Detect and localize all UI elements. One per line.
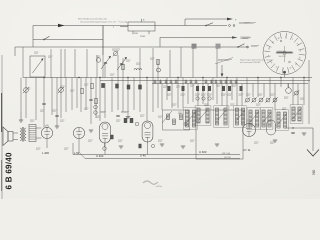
ground — [160, 143, 164, 145]
capacitor — [116, 114, 119, 116]
label value — [181, 93, 186, 95]
ground — [126, 116, 130, 118]
wire — [15, 46, 248, 48]
wire — [185, 18, 231, 20]
wire — [72, 143, 74, 155]
resistor box R-ballast — [128, 22, 155, 31]
wire — [257, 78, 259, 98]
trimmer — [295, 91, 299, 95]
wire — [90, 78, 92, 125]
terminal — [233, 25, 235, 27]
capacitor C4 — [89, 98, 92, 100]
wire — [33, 25, 103, 27]
wire — [148, 31, 150, 34]
svg-text:4a: 4a — [299, 50, 301, 52]
wire — [312, 128, 314, 151]
value label — [204, 103, 209, 105]
switch S3 — [238, 44, 245, 47]
tuning arrow — [186, 112, 196, 124]
variable cap C1 — [24, 88, 29, 93]
bus wire — [23, 77, 312, 79]
svg-text:Chassisverbindungsleitungen mi: Chassisverbindungsleitungen mit 1 mm — [80, 20, 117, 23]
wire — [133, 78, 135, 111]
ground — [302, 132, 306, 134]
value label — [36, 147, 41, 149]
wire — [60, 78, 62, 119]
circle osc tube pin — [157, 68, 161, 72]
capacitor blob — [127, 85, 130, 89]
value label — [176, 85, 181, 87]
IF coil L22 — [277, 112, 280, 128]
note pointer — [215, 58, 233, 65]
resistor R4 — [157, 59, 159, 65]
wire — [95, 78, 97, 119]
wire — [102, 26, 104, 78]
value label — [96, 115, 101, 117]
wire — [157, 60, 159, 78]
output transformer T1 — [20, 128, 22, 131]
switch contact — [180, 114, 183, 120]
junction — [146, 77, 147, 78]
wire — [177, 78, 179, 109]
label value — [227, 93, 232, 95]
wire — [71, 78, 73, 111]
capacitor — [211, 80, 213, 85]
power section box — [196, 110, 243, 159]
wire — [303, 78, 305, 106]
switch S1 — [44, 36, 50, 39]
tube top connection — [286, 88, 292, 94]
junction — [257, 77, 258, 78]
tuning arrow — [277, 114, 287, 126]
wire — [60, 49, 62, 78]
circle pin — [135, 122, 139, 126]
value label — [246, 93, 251, 95]
pin circle — [46, 125, 49, 128]
value label — [40, 109, 45, 111]
switch S2 — [206, 23, 213, 26]
capacitor blob — [116, 84, 119, 88]
label value — [239, 93, 244, 95]
trimmer C21 — [252, 98, 256, 102]
IF coil L13 — [206, 108, 209, 123]
wire — [78, 139, 80, 152]
value label — [230, 103, 235, 105]
arrow — [227, 18, 233, 21]
pencil smudge — [143, 181, 158, 184]
wire — [161, 84, 163, 111]
wire — [13, 132, 18, 134]
variable cap C6 — [101, 57, 110, 69]
page edge dark2 — [1, 160, 3, 191]
wire — [202, 78, 204, 105]
capacitor — [165, 80, 167, 85]
wire — [300, 127, 313, 129]
ground — [89, 129, 93, 131]
tuning arrow — [235, 110, 245, 122]
pencil smudge 2 — [156, 186, 162, 187]
value label — [26, 87, 31, 89]
wire — [216, 84, 218, 105]
resistor R13 — [202, 86, 205, 91]
label value — [207, 93, 212, 95]
junction — [202, 77, 203, 78]
earth arrow — [307, 150, 319, 157]
value label — [270, 141, 275, 143]
junction — [99, 77, 100, 78]
value label — [172, 103, 177, 105]
speaker — [3, 127, 8, 146]
label — [100, 111, 106, 113]
svg-text:Beim Wiederzusammenbau die: Beim Wiederzusammenbau die — [78, 18, 108, 21]
IF can outline — [184, 108, 198, 129]
capacitor — [185, 80, 187, 85]
wire — [104, 143, 106, 147]
resistor R16 — [228, 86, 231, 91]
IF coil L17 — [241, 108, 244, 125]
IF can outline — [275, 110, 288, 130]
terminal — [229, 25, 231, 27]
wire — [157, 78, 159, 109]
capacitor — [170, 80, 172, 85]
wire — [33, 39, 103, 41]
wire — [14, 47, 16, 56]
IF coil L24 — [292, 107, 295, 121]
wire — [152, 48, 154, 84]
value label — [136, 62, 141, 64]
wire — [288, 84, 290, 88]
terminal — [247, 46, 249, 48]
ground — [181, 145, 185, 147]
value label — [300, 97, 305, 99]
arrow — [232, 36, 238, 39]
switch contact — [167, 114, 170, 120]
value label — [190, 139, 195, 141]
IF coil L15 — [224, 108, 227, 125]
capacitor blob — [139, 85, 142, 89]
wire — [103, 25, 227, 27]
junction — [226, 77, 227, 78]
capacitor — [215, 80, 217, 85]
junction — [78, 77, 79, 78]
wire — [269, 78, 271, 98]
wire — [231, 84, 233, 101]
ground — [19, 119, 23, 121]
value label — [254, 141, 259, 143]
small cap — [291, 131, 294, 133]
value label — [48, 55, 53, 57]
value label — [84, 83, 89, 85]
capacitor — [190, 80, 192, 85]
label socket note 2 — [242, 37, 251, 39]
value label — [96, 55, 101, 57]
value label — [256, 103, 261, 105]
tuning arrow — [249, 112, 259, 124]
wire — [308, 60, 310, 124]
pin circle — [94, 105, 98, 109]
svg-text:U 403: U 403 — [199, 150, 207, 154]
wire — [292, 78, 294, 106]
bus wire — [85, 158, 240, 160]
wire — [287, 84, 289, 88]
pin circle — [196, 97, 199, 100]
capacitor C3 — [42, 102, 45, 104]
wire — [22, 47, 24, 78]
trimmer C24 — [273, 98, 277, 102]
wire — [122, 58, 124, 78]
ground — [215, 143, 219, 145]
trimmer C23 — [266, 98, 270, 102]
wire — [64, 49, 66, 78]
wire — [43, 78, 45, 128]
pin circle — [208, 97, 211, 100]
wire — [117, 78, 119, 111]
wire — [139, 48, 141, 78]
tube V1 — [41, 127, 52, 138]
svg-text:² Cu-Leitg.: ² Cu-Leitg. — [118, 20, 128, 23]
wire — [184, 19, 186, 26]
resistor R11 — [182, 86, 185, 91]
wire — [274, 84, 276, 111]
bus wire — [73, 154, 240, 156]
coil L1 — [134, 69, 137, 71]
IF can outline — [290, 105, 303, 123]
wire — [36, 137, 42, 139]
wire — [169, 50, 171, 78]
wire — [132, 31, 134, 34]
capacitor — [235, 80, 237, 85]
tuning arrow — [262, 112, 272, 124]
capacitor blob — [102, 83, 105, 87]
value label — [52, 109, 57, 111]
pin circle — [94, 111, 98, 115]
wire — [159, 38, 161, 48]
svg-text:L 52: L 52 — [74, 151, 80, 155]
IF can outline — [195, 106, 211, 125]
value label — [270, 93, 275, 95]
value label — [232, 84, 237, 86]
pin circle — [103, 147, 107, 151]
value label — [34, 51, 39, 53]
svg-text:L 406: L 406 — [42, 151, 49, 155]
IF can outline — [247, 108, 260, 129]
IF coil L18 — [249, 110, 252, 127]
capacitor C5 — [55, 114, 58, 116]
bus wire — [100, 80, 310, 82]
value label — [118, 139, 123, 141]
junction — [292, 127, 293, 128]
value label — [216, 84, 221, 86]
note text — [218, 59, 232, 61]
value label — [60, 85, 65, 87]
value label — [190, 84, 195, 86]
value label — [246, 119, 251, 121]
value label — [70, 89, 75, 91]
wire — [111, 78, 113, 113]
wire — [20, 112, 22, 120]
box antenna unit — [30, 56, 45, 77]
svg-text:mit Instrument 333 Ω/V: mit Instrument 333 Ω/V — [240, 61, 261, 64]
wire — [152, 84, 154, 113]
field coil box — [29, 125, 36, 142]
pin a — [141, 19, 143, 22]
wire — [50, 49, 52, 78]
band switch box — [163, 110, 190, 130]
IF coil L11 — [192, 110, 195, 127]
value label — [150, 57, 155, 59]
value label — [258, 93, 263, 95]
wire — [139, 78, 141, 113]
wire — [187, 84, 189, 105]
label osc — [112, 48, 120, 50]
wire — [236, 78, 238, 107]
wire — [127, 78, 129, 117]
capacitor — [195, 80, 197, 85]
wire — [252, 84, 254, 98]
tuning arrow — [198, 109, 208, 121]
IF coil L10 — [185, 110, 188, 127]
value label — [158, 115, 163, 117]
resistor R2b — [95, 98, 97, 104]
ground — [273, 139, 277, 141]
arrow — [58, 24, 65, 28]
wire — [160, 37, 236, 39]
resistor — [111, 135, 114, 139]
wire — [221, 84, 223, 107]
wire — [104, 83, 106, 118]
label value — [221, 93, 226, 95]
IF can outline — [234, 106, 247, 127]
wire — [99, 78, 101, 122]
value label — [158, 139, 163, 141]
wire — [192, 84, 194, 103]
value label — [126, 59, 131, 61]
tube U403 — [142, 121, 153, 142]
junction — [177, 77, 178, 78]
wire — [74, 49, 76, 78]
IF coil L14 — [215, 108, 218, 125]
wire — [80, 78, 82, 113]
wire — [171, 84, 173, 109]
capacitor — [220, 80, 222, 85]
fuse box — [216, 44, 221, 49]
svg-text:U 402: U 402 — [96, 154, 104, 158]
wire — [85, 78, 87, 111]
junction — [303, 77, 304, 78]
label — [121, 111, 129, 113]
wire — [120, 26, 128, 28]
wire — [102, 26, 104, 56]
value label — [64, 147, 69, 149]
resistor R12 — [196, 86, 199, 91]
label lamps — [239, 22, 250, 24]
IF coil L19 — [255, 110, 258, 127]
bus wire — [152, 83, 308, 85]
wire — [297, 84, 299, 106]
resistor R17 — [240, 86, 243, 91]
wire — [180, 47, 182, 78]
page edge line — [1, 55, 3, 199]
resistor — [130, 118, 133, 123]
svg-text:560: 560 — [312, 169, 316, 175]
capacitor — [205, 80, 207, 85]
tuning arrow — [162, 111, 172, 123]
wire — [35, 78, 37, 121]
label socket note — [244, 22, 256, 24]
junction — [43, 77, 44, 78]
wire — [65, 78, 67, 113]
wire — [197, 84, 199, 107]
switch contact — [173, 119, 176, 125]
wire — [212, 78, 214, 101]
resistor R15 — [222, 86, 225, 91]
coupling coil — [96, 58, 100, 62]
trimmer C22 — [259, 98, 263, 102]
label voltages — [240, 36, 250, 38]
tube socket diagram — [263, 32, 306, 75]
wire — [32, 26, 34, 48]
wire — [285, 127, 300, 129]
wire — [76, 78, 78, 109]
resistor — [124, 118, 127, 123]
variable cap C7 — [117, 58, 126, 70]
value label — [282, 107, 287, 109]
wire — [166, 78, 168, 101]
arrow to bus — [221, 65, 223, 76]
padder trimmer — [114, 52, 118, 56]
trimmer C2 — [59, 88, 64, 93]
svg-text:220Ω: 220Ω — [140, 36, 145, 38]
wire — [51, 78, 53, 116]
pin circle — [202, 97, 205, 100]
value label — [284, 96, 289, 98]
wire — [182, 78, 184, 109]
ground — [119, 145, 123, 147]
value label — [140, 114, 145, 116]
svg-text:6 B 69/40: 6 B 69/40 — [5, 152, 14, 190]
capacitor — [175, 80, 177, 85]
wire — [104, 143, 106, 155]
wire — [226, 78, 228, 109]
ground — [55, 125, 59, 127]
value label — [30, 119, 35, 121]
tuning arrow — [292, 108, 302, 120]
wire — [241, 84, 243, 107]
pin circle — [151, 144, 154, 147]
wire — [36, 127, 42, 129]
resistor R14 — [208, 86, 211, 91]
tube V2 — [73, 127, 84, 138]
tube small — [267, 120, 276, 135]
wire — [104, 62, 106, 78]
fuse box — [192, 44, 197, 49]
junction — [280, 77, 281, 78]
resistor R10 — [168, 86, 171, 91]
IF coil L25 — [298, 107, 301, 121]
value label — [116, 119, 121, 121]
label value — [167, 93, 172, 95]
value label — [178, 111, 183, 113]
svg-text:WS 1,5A: WS 1,5A — [222, 152, 231, 155]
wire — [56, 78, 58, 127]
wire — [280, 78, 282, 88]
wire — [263, 84, 265, 98]
IF coil L20 — [262, 110, 265, 127]
svg-text:U 40: U 40 — [140, 154, 146, 158]
wire — [46, 139, 48, 148]
IF coil L21 — [268, 110, 271, 127]
svg-text:UY 11: UY 11 — [243, 148, 251, 152]
